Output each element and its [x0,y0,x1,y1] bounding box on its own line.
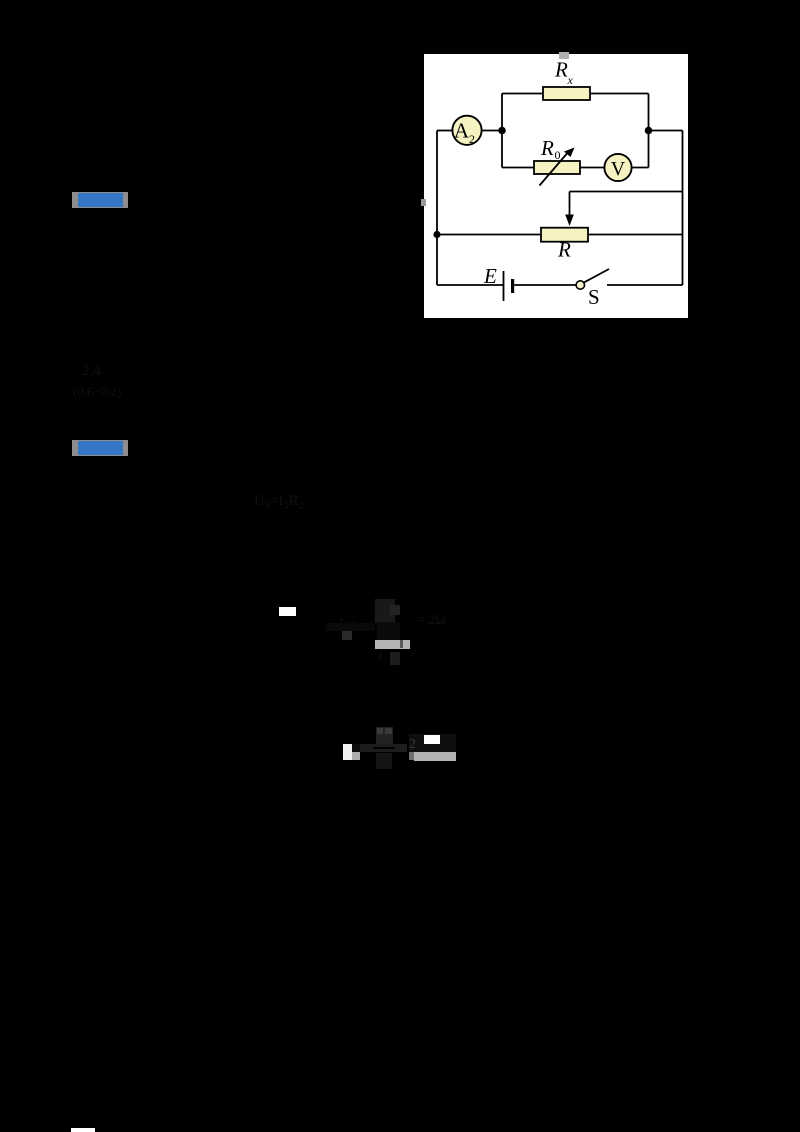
wire: inner-left vertical [501,94,503,168]
switch S lever [584,269,609,282]
node 1 (junction dot) [498,127,506,135]
ammeter A2 [452,116,481,146]
wire: stub to ammeter A2 [437,130,452,132]
svg-text:R: R [554,58,568,82]
node 2 (junction dot) [645,127,653,135]
voltmeter V [604,154,631,181]
answer badge 2 [72,440,128,457]
resistor Rx [543,87,590,100]
wire: left vertical [436,131,438,286]
wire: outer right vertical [682,131,684,286]
gray fragment above Rx label [559,52,569,59]
rheostat R0 body [534,161,580,174]
label Rx [554,58,574,88]
wire: inner-right vertical [648,94,650,168]
svg-text:V: V [611,158,626,180]
svg-text:R: R [557,238,571,262]
potentiometer R body [541,228,588,242]
svg-text:S: S [588,285,600,309]
gray fragment at left edge of figure [421,199,427,206]
wire: main lower horizontal [437,234,683,236]
wiper arrow into R [565,192,574,227]
switch S pivot [576,281,584,289]
wire: switch to right [607,284,683,286]
svg-text:A: A [454,119,470,143]
wire: top branch right [590,93,649,95]
svg-text:E: E [483,264,497,288]
svg-text:R: R [540,136,554,160]
svg-text:2: 2 [469,132,475,146]
circuit figure (white panel) [424,54,688,318]
answer badge 1 [72,192,128,209]
node 3 (junction dot) [433,231,440,238]
faint inline formula U2=I2R2 [254,493,304,510]
wire: node 2 to outer right [649,130,683,132]
equation block 1 [279,607,296,616]
equation block 2 [343,744,352,760]
bottom-left white fragment [71,1128,95,1132]
wire: A2 to node 1 [482,130,502,132]
svg-text:0: 0 [555,148,561,162]
label R0 [540,136,561,162]
rheostat R0 arrow [540,148,575,186]
battery E plates [504,271,513,301]
wire: battery to switch [514,284,576,286]
wire: R0 branch left [502,167,534,169]
wire: bottom left [437,284,504,286]
faint fraction: 2.4 over (0.6-0.2) [82,363,101,380]
wire: R0 to voltmeter [580,167,605,169]
wire: voltmeter to inner-right vertical [632,167,649,169]
wire: top branch left [502,93,543,95]
wire: wiper horizontal [570,191,683,193]
svg-text:x: x [567,73,574,87]
